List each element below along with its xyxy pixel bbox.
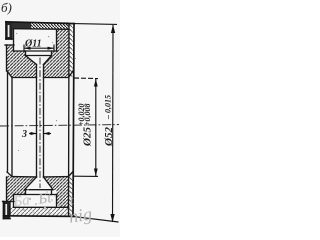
cone wall left top — [26, 56, 37, 65]
bore chamfer top left — [7, 71, 12, 78]
recess floor line bottom — [14, 194, 58, 196]
svg-text:Ø25: Ø25 — [82, 127, 94, 147]
left face line — [7, 71, 9, 171]
cavity left wall top — [13, 29, 15, 51]
dim line 3 left segment — [29, 133, 37, 135]
ext line d25 top — [74, 77, 98, 80]
svg-text:3: 3 — [21, 129, 27, 140]
lip top step edge — [11, 29, 13, 39]
hatch bottom right near cone — [44, 177, 57, 190]
bore top line left — [12, 77, 37, 79]
watermark — [11, 184, 93, 234]
band top line bottom — [14, 206, 69, 208]
dim line d11 — [24, 47, 54, 49]
ext line d52 top — [74, 23, 117, 26]
hatch bottom band — [10, 208, 69, 216]
arrow 3 left — [31, 132, 37, 135]
cone wall right top — [44, 56, 52, 65]
recess floor line top — [14, 50, 58, 52]
hole wall left — [36, 65, 38, 178]
lip bottom outer edge — [3, 202, 5, 219]
dim line d52 — [112, 25, 115, 222]
hatch bottom left strip — [7, 195, 14, 202]
dim line d25 — [95, 79, 97, 176]
bore chamfer bottom left — [7, 172, 12, 177]
hatch left lip top — [6, 22, 12, 39]
rim band inner line — [14, 28, 69, 31]
cone wall right bottom — [44, 177, 54, 190]
bore top line right — [44, 77, 69, 79]
lip bottom lower edge — [4, 218, 11, 220]
outline top surface — [6, 22, 74, 24]
hatch left hub main — [7, 51, 37, 78]
counterbore wall right — [51, 51, 53, 56]
hub face line bottom — [3, 201, 15, 203]
cavity left wall bottom — [13, 195, 15, 208]
dim line 3 right segment — [44, 133, 52, 135]
lip bottom step edge — [9, 202, 11, 217]
ext line d52 bottom — [74, 217, 119, 222]
centerline horizontal — [0, 125, 119, 126]
hub left edge bottom — [6, 177, 8, 202]
cone mouth line bottom — [25, 189, 54, 191]
counterbore wall bottom left — [25, 190, 27, 195]
svg-text:Ба: Ба — [11, 192, 30, 210]
arrow d52 top — [111, 25, 115, 33]
hatch bottom lip — [4, 202, 11, 219]
svg-text:Ø52: Ø52 — [103, 127, 115, 147]
cavity right wall top — [56, 29, 58, 51]
svg-text:б): б) — [1, 0, 12, 15]
ext line d25 bottom — [74, 175, 98, 177]
lip top bottom edge — [6, 38, 12, 40]
counterbore bottom line — [26, 55, 52, 57]
arrow d25 bottom — [94, 169, 98, 177]
svg-text:Ø11: Ø11 — [24, 39, 42, 50]
hole wall right — [43, 65, 45, 178]
arrow d11 right — [48, 47, 55, 50]
hub face line top — [5, 44, 14, 46]
arrow d52 bottom — [110, 214, 114, 222]
hub left edge top — [6, 45, 8, 71]
dark smudge left part of band — [12, 22, 31, 28]
counterbore wall bottom right — [51, 190, 53, 195]
cavity right wall bottom — [56, 195, 58, 208]
ext line d11 left — [23, 45, 25, 53]
watermark speckle — [19, 189, 59, 214]
bore bottom line left — [12, 176, 37, 178]
arrow d25 top — [94, 79, 98, 87]
hatch left hub strip — [7, 45, 14, 51]
arrow 3 right — [44, 132, 50, 135]
counterbore wall left — [25, 51, 27, 56]
arrow d11 left — [24, 47, 31, 50]
outline bottom surface — [4, 215, 75, 218]
ext line d11 right — [53, 45, 55, 53]
hatch bottom left hub — [7, 175, 37, 195]
cone wall left bottom — [25, 177, 37, 190]
right inner face line — [68, 24, 71, 216]
hatch rim band top — [7, 22, 69, 29]
right outer face — [73, 24, 74, 217]
bore chamfer top right — [69, 71, 74, 78]
centerline vertical of hole — [39, 58, 41, 189]
scan specks — [16, 33, 76, 151]
bore chamfer bottom right — [69, 172, 74, 177]
lip top outer edge — [5, 22, 7, 39]
hatch right wall top — [57, 29, 69, 78]
hatch right hub lower — [44, 51, 57, 78]
left bore edge line — [11, 78, 13, 177]
svg-text:– 0,015: – 0,015 — [104, 95, 113, 120]
hatch right outer strip top — [69, 24, 73, 77]
hatch bottom right wall — [57, 177, 69, 207]
svg-text:+0,020: +0,020 — [77, 103, 86, 126]
bore bottom line right — [44, 176, 69, 178]
hatch bottom right outer strip — [69, 177, 73, 216]
